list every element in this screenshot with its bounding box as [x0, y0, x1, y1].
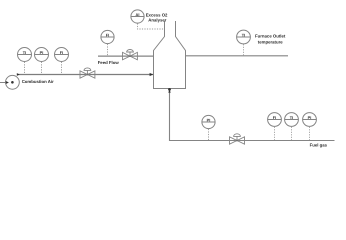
svg-text:Analyser: Analyser: [148, 17, 166, 22]
svg-text:PI: PI: [207, 118, 211, 123]
svg-text:FI: FI: [60, 50, 63, 55]
svg-text:temperature: temperature: [258, 39, 283, 44]
svg-text:Furnace Outlet: Furnace Outlet: [255, 34, 286, 39]
svg-text:TI: TI: [23, 50, 26, 55]
svg-text:Feed Flow: Feed Flow: [98, 60, 120, 65]
svg-text:AI: AI: [136, 12, 140, 17]
svg-text:FI: FI: [106, 33, 109, 38]
svg-text:TI: TI: [290, 115, 293, 120]
svg-text:PI: PI: [308, 115, 312, 120]
svg-text:FI: FI: [273, 115, 276, 120]
svg-text:PI: PI: [40, 50, 44, 55]
svg-text:Combustion Air: Combustion Air: [22, 79, 54, 84]
svg-text:TI: TI: [242, 33, 245, 38]
svg-text:Fuel gas: Fuel gas: [310, 142, 328, 147]
